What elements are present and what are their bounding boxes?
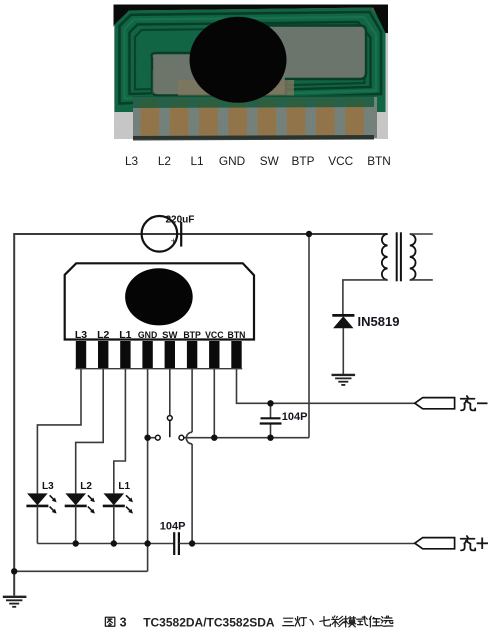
wire: bottom horizontal to ground rail — [14, 570, 147, 572]
op-amp U1 pin name labels — [75, 329, 246, 341]
wire: pin baseline tick — [75, 368, 242, 370]
LED L2 emission arrows — [88, 495, 94, 501]
capacitor C2 104P leads — [270, 403, 272, 418]
svg-text:GND: GND — [219, 154, 245, 168]
trace ring dark 3 — [135, 28, 365, 90]
trace ring dark 2 — [130, 22, 371, 94]
photo grain overlay — [114, 5, 388, 139]
connector fingers strip background — [133, 97, 377, 138]
finger strip top green shading — [133, 95, 374, 108]
svg-text:+: + — [171, 236, 176, 246]
COB black blob — [190, 17, 287, 103]
LED L1 cathode bar — [103, 505, 125, 508]
svg-text:L3: L3 — [42, 481, 54, 492]
wire: BTP hop over node wire — [186, 432, 192, 444]
svg-text:L1: L1 — [190, 154, 203, 168]
fingers bottom dark edge — [133, 135, 374, 141]
LED L1 emission arrows — [126, 495, 132, 501]
op-amp U1 die blob — [125, 268, 193, 325]
wire: LED cathode bus left of C3 — [37, 543, 174, 545]
photo black top band — [114, 5, 389, 34]
svg-text:L2: L2 — [80, 481, 92, 492]
pin name labels under photo — [125, 154, 391, 168]
PCB green body — [115, 8, 386, 113]
capacitor C1 220uF body circle — [142, 216, 178, 252]
transformer T1 core lines — [396, 232, 398, 281]
wire: top horizontal rail VCC — [14, 233, 387, 235]
svg-text:VCC: VCC — [328, 154, 353, 168]
trace ring dark 1 — [120, 12, 382, 104]
label charge-plus 充+ — [461, 536, 475, 550]
svg-text:L3: L3 — [75, 329, 87, 341]
wire: left vertical rail — [13, 233, 15, 596]
capacitor C1 plate bar — [180, 222, 182, 247]
op-amp U1 TC3582DA package body — [65, 263, 254, 339]
wire: pin GND vertical — [147, 369, 149, 544]
switch S1 actuator stem — [169, 420, 171, 437]
wire: pin SW down to button actuator — [169, 369, 171, 416]
wire: transformer secondary bottom lead — [410, 279, 433, 281]
wire: pin BTP down to hop — [191, 369, 193, 433]
switch S1 contact left — [155, 435, 160, 440]
caption figure 3 title — [105, 617, 114, 626]
svg-text:L1: L1 — [118, 481, 130, 492]
svg-text:L2: L2 — [158, 154, 171, 168]
svg-text:BTP: BTP — [292, 154, 315, 168]
svg-text:TC3582DA/TC3582SDA: TC3582DA/TC3582SDA — [143, 616, 275, 630]
node junction dots — [11, 231, 312, 575]
svg-text:L3: L3 — [125, 154, 139, 168]
wire: LED L1 cathode to bus — [113, 506, 115, 544]
connector charge-minus tag — [415, 398, 455, 409]
LED L1 anode triangle — [104, 493, 125, 505]
wire: bus right of C3 to charge-plus — [179, 543, 415, 545]
svg-text:L1: L1 — [119, 329, 131, 341]
label charge-minus 充- — [461, 396, 475, 410]
capacitor C2 plates — [261, 417, 281, 419]
switch S1 contact right — [179, 435, 184, 440]
wire: node row right segment — [184, 437, 309, 439]
wire: GND node down to bottom rail — [147, 544, 149, 572]
LED L2 cathode bar — [65, 505, 87, 508]
wire: pin L3 to LED L3 anode — [37, 369, 81, 494]
LED L3 anode triangle — [27, 493, 48, 505]
svg-text:L2: L2 — [97, 329, 109, 341]
wire: LED L3 cathode to bus — [36, 506, 38, 544]
diode D1 triangle — [333, 316, 353, 328]
wire: vertical from top rail junction down to BTP/VCC node — [308, 234, 310, 438]
trace ring bright 1 — [125, 17, 377, 99]
gray copper pour — [152, 26, 367, 96]
wire: pin VCC down to node — [213, 369, 215, 438]
connector charge-plus tag — [415, 538, 455, 549]
op-amp U1 pins — [76, 341, 242, 369]
capacitor C3 plates — [173, 532, 175, 555]
svg-text:IN5819: IN5819 — [358, 314, 400, 329]
wire: BTP below hop to LED bus — [191, 444, 193, 544]
svg-text:220uF: 220uF — [166, 215, 195, 226]
wire: pin BTN down and right to charge-minus — [237, 369, 415, 404]
LED L3 emission arrows — [50, 495, 56, 501]
wire: pin L1 to LED L1 anode — [114, 369, 126, 494]
tan patch left of pour — [152, 70, 188, 94]
ground symbol bottom left — [3, 597, 27, 607]
svg-text:VCC: VCC — [205, 330, 224, 340]
tan copper patch below blob — [178, 80, 294, 96]
svg-text:GND: GND — [138, 330, 158, 340]
svg-text:SW: SW — [162, 330, 177, 341]
transformer T1 primary winding — [382, 234, 388, 280]
PCB module photo — [114, 5, 389, 141]
svg-text:BTN: BTN — [367, 154, 391, 168]
wire: transformer primary bottom lead to diode — [343, 280, 388, 316]
ground symbol at diode — [332, 375, 356, 385]
wire: pin L2 to LED L2 anode — [76, 369, 104, 494]
gold fingers — [141, 99, 364, 138]
diode D1 cathode bar — [332, 314, 354, 317]
LED L2 anode triangle — [65, 493, 86, 505]
switch S1 actuator knob — [167, 416, 172, 421]
svg-text:104P: 104P — [160, 521, 186, 533]
wire: diode anode to ground — [342, 328, 344, 374]
LED L3 cathode bar — [26, 505, 48, 508]
svg-text:3: 3 — [120, 616, 127, 630]
transformer T1 secondary winding — [410, 234, 416, 280]
wire: LED L2 cathode to bus — [75, 506, 77, 544]
wire: transformer secondary top lead — [410, 233, 433, 235]
svg-text:SW: SW — [260, 154, 280, 168]
svg-text:BTP: BTP — [183, 330, 200, 340]
svg-text:104P: 104P — [282, 411, 308, 423]
svg-text:BTN: BTN — [228, 330, 246, 340]
tan pad top right corner — [372, 8, 384, 26]
wire: node row left segment — [148, 437, 156, 439]
